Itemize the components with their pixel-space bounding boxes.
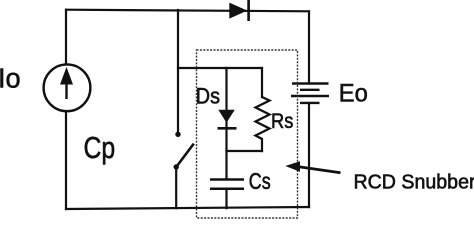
svg-text:Rs: Rs	[271, 109, 293, 133]
svg-text:Eo: Eo	[339, 80, 368, 108]
svg-text:Cs: Cs	[249, 169, 271, 195]
svg-text:Ds: Ds	[196, 84, 220, 108]
svg-text:Cp: Cp	[84, 130, 116, 164]
svg-text:Io: Io	[0, 62, 21, 93]
svg-text:RCD Snubber: RCD Snubber	[354, 171, 474, 193]
